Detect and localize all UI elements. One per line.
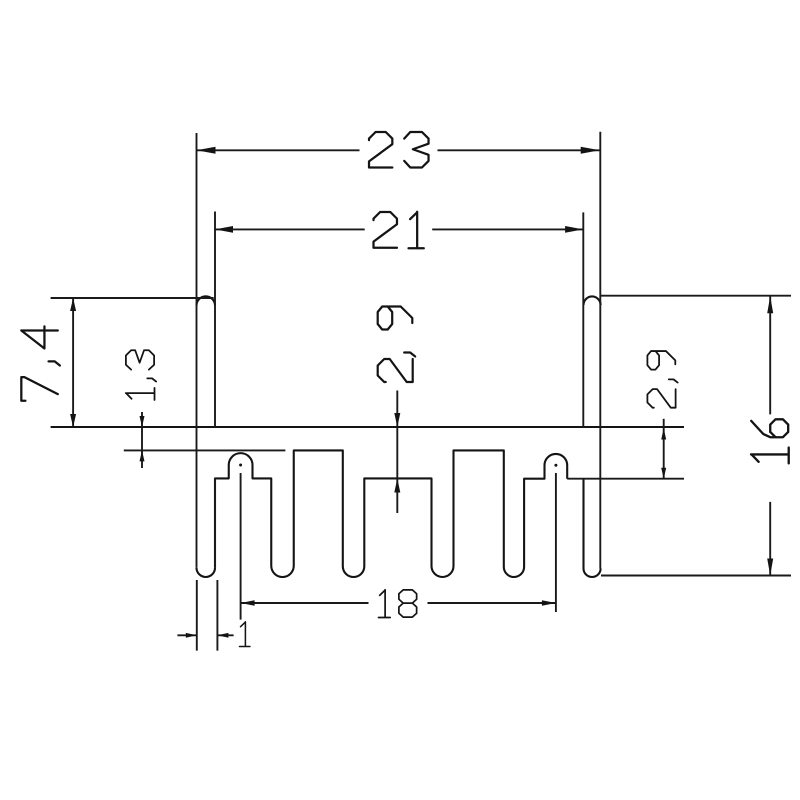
arrowhead dim 7,4 top [70,298,76,311]
arrowhead dim 7,4 bottom [70,414,76,427]
arrowhead dim 2,9 right bottom [661,468,666,479]
arrowhead dim 21 left [215,226,233,233]
arrowhead dim 1 right [217,633,228,638]
dimension line 21 [215,228,583,230]
arrowhead dim 2,9 center top [394,413,400,427]
heatsink left wall rounded bottom tip [197,568,216,577]
arrowhead dim 18 left [241,600,255,605]
extension line plate bottom for dim 1,3 [124,449,286,451]
arrowhead dim 23 right [581,147,600,154]
dimension line 1,3 [141,412,143,468]
label 2,9 center rotated [378,307,416,383]
left nub center dot [239,464,242,467]
label 23 [369,132,429,167]
extension line bottom right for dim 16 [601,575,791,577]
label 16 rotated [751,419,789,463]
left nub axis extension line for dims 18 and 1 [240,473,242,620]
arrowhead dim 16 bottom [767,559,773,576]
label 21 [374,212,424,248]
dimension line 2,9 right [663,419,665,479]
dimension line 7,4 [72,298,74,427]
bottom contour: clip groove with left nub, fins and slots [215,450,567,577]
extension line left of wall for dim 1 [196,580,198,651]
arrowhead dim 2,9 right top [661,429,666,440]
right nub axis extension line for dim 18 [555,473,557,612]
label 1,3 rotated [126,350,156,400]
extension line top of walls for dim 7,4 [51,297,214,299]
dimension line 2,9 center [396,391,398,514]
left wall outer edge + extension for dim 23 [196,133,198,568]
extension line right of wall for dim 1 [216,580,218,651]
heatsink right wall inner edge below plate [582,479,584,569]
dimension line 1 [177,634,233,636]
arrowhead dim 21 right [565,226,583,233]
label 2,9 right rotated [647,351,677,408]
base plate top surface line [51,426,684,428]
left wall inner edge below shoulder [214,478,216,567]
label 7,4 rotated [21,326,60,400]
arrowhead dim 1,3 top [140,416,145,427]
left wall inner edge + extension for dim 21 [214,212,216,428]
heatsink right wall rounded top cap [584,296,601,305]
dimension line 18 [241,602,556,604]
extension line top right for dim 16 [600,295,791,297]
arrowhead dim 2,9 center bottom [394,479,400,493]
right wall outer edge + extension for dim 23 [599,132,601,569]
extension line shoulder level right for dim 2,9 [567,478,684,480]
arrowhead dim 18 right [542,600,556,605]
right nub center dot [554,464,557,467]
label 1 [240,622,250,647]
dimension line 16 [769,296,771,575]
dimension line 23 [197,149,600,151]
arrowhead dim 1 left [186,633,197,638]
heatsink right wall rounded bottom tip [584,568,601,577]
heatsink left wall rounded top cap [197,296,216,305]
label 18 [379,590,417,618]
right wall inner edge + extension for dim 21 [582,212,584,427]
arrowhead dim 1,3 bottom [140,450,145,461]
arrowhead dim 16 top [767,296,773,313]
arrowhead dim 23 left [197,147,216,154]
